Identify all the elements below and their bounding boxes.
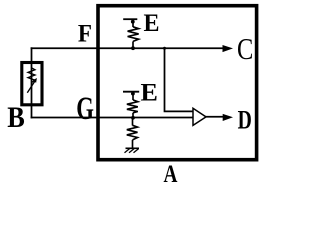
svg-text:E: E — [140, 78, 157, 106]
svg-text:A: A — [164, 160, 178, 188]
svg-text:C: C — [237, 31, 253, 65]
svg-text:B: B — [7, 102, 25, 135]
svg-text:E: E — [144, 9, 160, 37]
svg-text:D: D — [238, 106, 252, 136]
svg-text:F: F — [78, 21, 92, 48]
svg-text:G: G — [76, 91, 94, 127]
